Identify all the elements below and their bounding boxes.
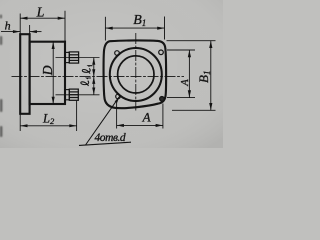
L2 arrows [20, 124, 27, 127]
dimension B1 top lines [105, 17, 164, 41]
arrowheads [13, 17, 213, 128]
svg-text:A: A [180, 79, 191, 87]
l1 arrows [92, 58, 95, 65]
dimension h lines [1, 25, 42, 34]
front view vertical center line [135, 33, 137, 111]
side view: flange plate (edge-on) [20, 34, 29, 114]
top terminal stud thread [69, 52, 78, 63]
hole top-left [115, 51, 120, 56]
svg-text:h: h [5, 19, 11, 33]
front view flange outline [104, 40, 167, 108]
label l1 bottom [81, 78, 91, 86]
hole bottom-right [160, 97, 165, 102]
leader line 4otv.d [86, 96, 120, 145]
A bottom arrows [117, 124, 124, 127]
D arrows [52, 42, 55, 49]
dimension A bottom lines [117, 101, 163, 129]
h arrows [13, 30, 20, 33]
hole bottom-left [116, 94, 121, 99]
dimension L line [20, 17, 65, 19]
dimension B1 right lines [167, 41, 216, 111]
svg-text:L: L [36, 6, 45, 21]
vignette [0, 0, 223, 148]
label l1 top [82, 66, 92, 74]
svg-text:4отв.d: 4отв.d [95, 132, 126, 144]
dimension l1 line [93, 58, 95, 95]
L arrows [20, 17, 27, 20]
hole top-right [159, 50, 164, 55]
front view horizontal center line [12, 76, 185, 78]
bottom terminal stud thread [69, 89, 78, 100]
svg-text:D: D [40, 65, 55, 76]
dimension L extension lines [20, 11, 65, 42]
dimension A right lines [167, 50, 195, 98]
top stud center line [56, 57, 100, 59]
dimension D line [52, 42, 54, 104]
bottom terminal stud collar [65, 90, 69, 100]
top terminal stud collar [65, 52, 69, 62]
side view: motor body [30, 42, 65, 104]
leader shelf [79, 142, 131, 145]
scan edge artifacts [0, 15, 2, 138]
dimension L2 lines [20, 101, 76, 131]
paper background [0, 0, 223, 148]
svg-text:A: A [142, 109, 151, 124]
B1 right arrows [209, 41, 212, 48]
leader arrowhead [115, 96, 120, 102]
front view outer circle [110, 48, 162, 101]
front view inner circle [118, 56, 154, 93]
A right arrows [188, 50, 191, 57]
bottom stud center line [56, 94, 100, 96]
B1 top arrows [105, 27, 112, 30]
